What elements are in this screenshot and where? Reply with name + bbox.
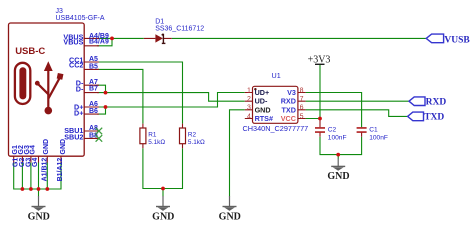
svg-text:A1/B12: A1/B12: [41, 158, 48, 182]
svg-text:TXD: TXD: [282, 105, 296, 114]
svg-text:5: 5: [300, 113, 304, 120]
svg-text:VBUS: VBUS: [63, 38, 83, 47]
svg-text:GND: GND: [219, 211, 241, 222]
svg-text:RTS#: RTS#: [255, 114, 273, 123]
svg-text:GND: GND: [43, 139, 50, 155]
svg-text:B1/A12: B1/A12: [57, 158, 64, 182]
svg-text:B7: B7: [89, 86, 98, 93]
svg-text:5.1kΩ: 5.1kΩ: [148, 139, 165, 146]
svg-text:U1: U1: [272, 71, 281, 80]
svg-text:C2: C2: [328, 127, 337, 134]
svg-text:D1: D1: [155, 18, 164, 25]
svg-text:D-: D-: [76, 85, 84, 94]
svg-text:2: 2: [247, 96, 251, 103]
svg-text:GND: GND: [28, 211, 50, 222]
svg-text:6: 6: [300, 105, 304, 112]
svg-text:3: 3: [247, 105, 251, 112]
svg-text:7: 7: [300, 96, 304, 103]
svg-text:R2: R2: [188, 131, 197, 138]
svg-text:C1: C1: [369, 127, 378, 134]
svg-text:VCC: VCC: [281, 114, 296, 123]
svg-text:VUSB: VUSB: [444, 36, 470, 46]
svg-text:GND: GND: [152, 211, 174, 222]
svg-text:D+: D+: [74, 109, 83, 118]
svg-text:CC2: CC2: [69, 61, 83, 70]
svg-text:GND: GND: [327, 171, 349, 182]
svg-text:UD+: UD+: [255, 88, 270, 97]
svg-text:5.1kΩ: 5.1kΩ: [188, 139, 205, 146]
svg-text:G4: G4: [32, 158, 39, 167]
svg-text:100nF: 100nF: [328, 134, 347, 141]
svg-text:B5: B5: [89, 63, 98, 70]
svg-text:B6: B6: [89, 108, 98, 115]
svg-text:GND: GND: [255, 105, 271, 114]
svg-text:TXD: TXD: [424, 113, 444, 123]
svg-text:USB4105-GF-A: USB4105-GF-A: [56, 15, 105, 22]
svg-text:RXD: RXD: [426, 97, 447, 107]
svg-text:CH340N_C2977777: CH340N_C2977777: [243, 124, 309, 133]
svg-text:1: 1: [247, 87, 251, 94]
svg-text:J3: J3: [56, 8, 64, 15]
svg-text:V3: V3: [287, 88, 296, 97]
svg-text:A5: A5: [89, 56, 98, 63]
svg-text:R1: R1: [148, 131, 157, 138]
svg-text:A6: A6: [89, 101, 98, 108]
svg-text:GND: GND: [60, 139, 67, 155]
svg-text:SS36_C116712: SS36_C116712: [155, 26, 204, 33]
svg-text:8: 8: [300, 87, 304, 94]
svg-text:100nF: 100nF: [369, 134, 388, 141]
svg-text:B4/A9: B4/A9: [89, 39, 109, 46]
svg-text:G4: G4: [30, 145, 37, 154]
svg-text:USB-C: USB-C: [15, 46, 45, 57]
svg-text:4: 4: [247, 113, 251, 120]
